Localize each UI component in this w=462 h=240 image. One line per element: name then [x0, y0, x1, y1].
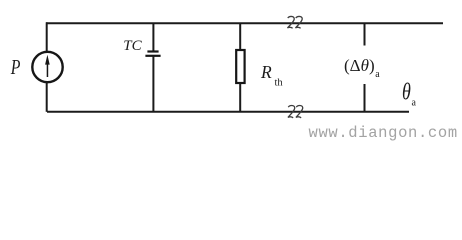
break squiggle top-left — [287, 16, 294, 28]
svg-text:(Δθ): (Δθ) — [344, 56, 375, 75]
svg-text:th: th — [275, 77, 284, 88]
wire stub top terminal — [364, 23, 366, 45]
wire capacitor bottom lead — [152, 57, 154, 112]
svg-text:P: P — [10, 56, 21, 78]
wire left vertical bottom (source to bottom rail) — [46, 83, 48, 112]
wire left vertical top (source to top rail) — [46, 22, 48, 51]
wire bottom rail — [47, 111, 409, 113]
resistor Rth (rectangle) — [236, 50, 244, 83]
svg-text:R: R — [260, 62, 272, 82]
wire resistor top lead — [239, 23, 241, 50]
svg-text:TC: TC — [123, 38, 142, 54]
break squiggle bottom-right — [296, 106, 303, 118]
wire resistor bottom lead — [239, 83, 241, 112]
current source arrow — [45, 55, 50, 77]
svg-text:www.diangon.com: www.diangon.com — [309, 124, 458, 142]
current source P (circle) — [32, 52, 62, 82]
wire capacitor top lead — [152, 23, 154, 50]
wire top rail — [46, 22, 443, 24]
svg-text:a: a — [375, 69, 380, 80]
break squiggle top-right — [295, 16, 302, 28]
svg-text:θ: θ — [402, 78, 411, 105]
capacitor TC plates — [145, 52, 160, 56]
wire stub bottom terminal — [364, 84, 366, 112]
svg-text:a: a — [412, 98, 417, 109]
break squiggle bottom-left — [288, 106, 295, 118]
